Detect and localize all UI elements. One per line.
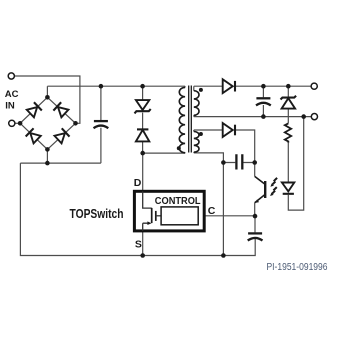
wire AC input top line [14, 76, 80, 123]
diode D1 clamp blocking [136, 129, 149, 141]
diode D2 output rectifier [223, 79, 235, 93]
wire zener resistor LED chain [288, 86, 303, 210]
junction output cap top [261, 84, 266, 89]
capacitor C3 bias [236, 154, 242, 169]
junction drain node [140, 151, 145, 156]
diode bridge bottom-right [54, 128, 69, 143]
zener VR2 feedback [281, 96, 297, 109]
svg-text:D: D [134, 177, 142, 189]
junction bias cap left [221, 160, 226, 165]
wire C pin to bypass cap [198, 216, 255, 233]
wire opto transistor leads [254, 163, 256, 217]
wire bias winding bottom return [194, 152, 224, 255]
diode bridge bottom-left [26, 128, 41, 143]
svg-text:AC: AC [5, 89, 19, 100]
terminal AC top [8, 73, 14, 79]
wire bias cap leads [223, 162, 254, 164]
terminal AC bottom [9, 120, 15, 126]
transformer secondary phase dot [199, 88, 203, 92]
junction zener top [286, 84, 291, 89]
wire AC input bottom line [15, 122, 20, 124]
wire S pin [142, 231, 144, 256]
junction bridge left [18, 121, 23, 126]
junction bias return [221, 253, 226, 258]
capacitor C2 output [256, 98, 271, 105]
svg-text:IN: IN [5, 100, 15, 111]
optocoupler LED [282, 183, 294, 194]
optocoupler light arrows [270, 178, 277, 196]
wire bias winding top to diode [194, 130, 255, 163]
junction output cap bottom [261, 114, 266, 119]
junction bridge bottom [45, 147, 50, 152]
junction C pin node [253, 214, 258, 219]
wire clamp branch [142, 86, 144, 153]
wire output cap leads [262, 86, 264, 116]
transformer primary phase dot [177, 146, 181, 150]
junction bridge top [45, 95, 50, 100]
optocoupler phototransistor [255, 176, 266, 203]
transformer bias phase dot [199, 132, 203, 136]
diode D4 bias rectifier [223, 123, 235, 137]
capacitor C4 control bypass [248, 233, 263, 240]
wire primary return loop [20, 163, 255, 255]
junction bias cap right [252, 160, 257, 165]
wire bridge bottom rail [20, 149, 101, 163]
transformer T1 secondary winding [194, 91, 199, 116]
transformer T1 primary winding [179, 87, 185, 152]
svg-text:PI-1951-091996: PI-1951-091996 [267, 262, 328, 273]
zener TVS VR1 clamp [135, 100, 151, 113]
svg-text:TOPSwitch: TOPSwitch [70, 206, 124, 221]
junction filter cap top [99, 84, 104, 89]
wire secondary top to output rail [194, 86, 311, 91]
svg-text:C: C [208, 205, 216, 217]
junction bridge right [73, 121, 78, 126]
resistor R1 [285, 123, 291, 142]
transformer core [189, 86, 192, 153]
wire secondary bottom output return rail [194, 115, 311, 116]
capacitor C1 input filter [94, 121, 109, 128]
junction bridge bottom rail [45, 161, 50, 166]
junction clamp top [140, 84, 145, 89]
TOPSwitch U1 block frame [134, 191, 204, 231]
terminal output plus [311, 83, 317, 89]
junction LED loop return [301, 114, 306, 119]
transformer T1 bias winding [194, 132, 199, 153]
MOSFET inside TOPSwitch [143, 191, 161, 231]
svg-text:S: S [135, 238, 142, 250]
junction S rail [140, 253, 145, 258]
wire drain node to primary and D pin [143, 153, 185, 192]
wire DC+ top rail [47, 86, 185, 97]
diode bridge top-left [26, 102, 41, 117]
wire bridge diamond [20, 97, 75, 149]
diode bridge top-right [53, 102, 68, 117]
CONTROL block inner rectangle [161, 207, 198, 225]
terminal output minus [311, 114, 317, 120]
wire filter cap leads [100, 86, 102, 163]
svg-text:CONTROL: CONTROL [155, 196, 201, 207]
